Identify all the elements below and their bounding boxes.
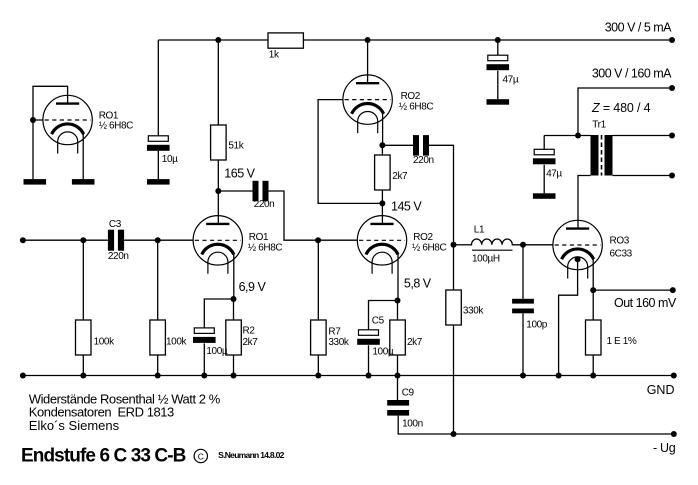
tube RO1 first stage half 6H8C [193, 216, 242, 274]
svg-text:½ 6H8C: ½ 6H8C [99, 121, 133, 132]
wire input row [23, 239, 193, 241]
svg-text:1 E 1%: 1 E 1% [607, 336, 637, 347]
svg-text:47µ: 47µ [546, 169, 562, 180]
copyright symbol [194, 449, 207, 462]
svg-text:Elko´s Siemens: Elko´s Siemens [29, 418, 120, 433]
wire 100k input leg [82, 240, 84, 375]
wire out [593, 289, 673, 291]
label RO1 spare [99, 111, 133, 132]
svg-text:C9: C9 [402, 388, 415, 399]
wire supply 300V/160mA [578, 88, 672, 136]
tube RO2 upper half 6H8C [343, 75, 392, 133]
terminal GND left [20, 373, 26, 379]
wire cathode node to 100u [204, 299, 233, 328]
terminal out [670, 287, 676, 293]
node gnd C5 [366, 373, 372, 379]
node L1 left / 330k [451, 242, 457, 248]
svg-text:GND: GND [647, 383, 675, 397]
transformer Tr1 [591, 120, 613, 176]
node C3 / 100k [155, 237, 161, 243]
wire RO2b anode lead [381, 203, 383, 224]
capacitor 100p [512, 299, 548, 331]
svg-text:Endstufe 6 C 33 C-B: Endstufe 6 C 33 C-B [21, 445, 186, 466]
node gnd 100k grid [155, 373, 161, 379]
svg-text:C5: C5 [372, 316, 385, 327]
node RO1 cathode 6.9V [231, 296, 237, 302]
node 145V [379, 200, 385, 206]
wire 100p upper lead [522, 245, 524, 299]
ground bar RO1 spare cathode [72, 179, 95, 185]
svg-text:- Ug: - Ug [653, 441, 676, 455]
node top rail / 47u [495, 37, 501, 43]
wire 1E leads [592, 290, 594, 375]
terminal secondary top [669, 133, 675, 139]
svg-text:145 V: 145 V [391, 200, 422, 214]
wire R2 leads [233, 299, 235, 376]
label RO3 [610, 235, 633, 259]
svg-text:100p: 100p [526, 319, 547, 330]
wire RO1 anode lead [217, 191, 219, 224]
wire 47u to ground [497, 71, 499, 100]
wire R7 leads [317, 240, 319, 375]
node gnd 100k input [80, 373, 86, 379]
wire RO2b cathode lead [397, 254, 399, 301]
node top rail right terminal [669, 37, 675, 43]
svg-text:220n: 220n [108, 251, 129, 262]
resistor R7 330k [311, 320, 350, 355]
node L1 right / 100p [520, 242, 526, 248]
svg-text:½ 6H8C: ½ 6H8C [412, 242, 446, 253]
tube RO1 spare half 6H8C [43, 95, 92, 153]
wire 100k grid leg [157, 240, 159, 375]
svg-text:100k: 100k [94, 336, 115, 347]
wire rail to 47u [497, 40, 499, 55]
node out [590, 287, 596, 293]
node top rail / 51k [215, 37, 221, 43]
ground bar under 47u lower [533, 193, 556, 199]
svg-text:6,9 V: 6,9 V [239, 280, 267, 294]
capacitor 220n coupling2 [413, 135, 434, 166]
wire rail to 51k to 165V node [217, 40, 219, 191]
svg-text:2k7: 2k7 [243, 337, 259, 348]
wire 100p to gnd [522, 313, 524, 375]
wire RO1 spare grid-anode tie [33, 86, 68, 120]
wire primary bottom to RO3 anode [578, 176, 591, 229]
svg-text:10µ: 10µ [162, 154, 178, 165]
svg-text:C3: C3 [109, 219, 122, 230]
wire 100u to gnd [203, 343, 205, 375]
svg-text:½ 6H8C: ½ 6H8C [399, 102, 433, 113]
wire RO2a anode to rail [367, 40, 369, 83]
wire RO1 spare grid to ground [32, 120, 34, 179]
svg-text:1k: 1k [269, 50, 280, 61]
svg-text:300 V / 160 mA: 300 V / 160 mA [592, 67, 672, 81]
wire L1 to RO3 grid [514, 244, 553, 246]
wire RO3 cathode right to out node [592, 258, 594, 290]
resistor 2k7 lower [390, 320, 423, 355]
wire GND rail [23, 375, 674, 377]
wire 220n down to RO2 grid row [269, 191, 358, 240]
svg-text:R7: R7 [328, 326, 341, 337]
terminal input [20, 237, 26, 243]
svg-text:RO2: RO2 [413, 232, 433, 243]
wire C9 to -Ug rail [398, 416, 674, 434]
svg-text:Out 160 mV: Out 160 mV [614, 296, 677, 310]
resistor 100k grid [150, 320, 188, 355]
wire RO2a cathode to 220n [382, 144, 413, 146]
wire top supply rail 300V/5mA [158, 39, 672, 41]
node RO2a cathode [379, 142, 385, 148]
node 165V [215, 188, 221, 194]
wire RO2a grid to 145V node [318, 100, 382, 204]
svg-text:6C33: 6C33 [610, 249, 633, 260]
resistor 1E 1% [586, 320, 637, 355]
node gnd R2 [231, 373, 237, 379]
svg-text:Tr1: Tr1 [592, 120, 606, 131]
node gnd RO3 cathode [556, 373, 562, 379]
wire 165V node to 220n [218, 190, 252, 192]
node primary top [575, 133, 581, 139]
svg-text:RO2: RO2 [401, 91, 421, 102]
label RO1 first stage [248, 232, 282, 254]
wire RO1 cathode lead [233, 254, 235, 299]
wire 220n to L1 node [429, 145, 454, 245]
node input / 100k [80, 237, 86, 243]
svg-text:100µ: 100µ [372, 347, 393, 358]
wire RO2a cathode lead [382, 113, 384, 145]
svg-text:51k: 51k [228, 141, 244, 152]
svg-text:2k7: 2k7 [392, 171, 408, 182]
wire 2k7 lower leads [397, 301, 399, 376]
wire 47u2 node to transformer primary top [544, 135, 590, 137]
node RO3 cathode center [575, 256, 581, 262]
svg-text:2k7: 2k7 [407, 337, 423, 348]
wire 47u lower to ground [543, 165, 545, 194]
capacitor 100u first stage [193, 328, 228, 357]
svg-text:100µH: 100µH [472, 254, 500, 265]
node -Ug 330k [451, 431, 457, 437]
ground bar RO1 spare grid [24, 179, 47, 185]
svg-text:330k: 330k [328, 337, 349, 348]
resistor 1k [268, 33, 303, 61]
wire gnd node to C9 [397, 376, 399, 401]
svg-text:S.Neumann 14.8.02: S.Neumann 14.8.02 [218, 450, 285, 460]
wire secondary bottom [613, 175, 673, 177]
svg-text:330k: 330k [463, 306, 484, 317]
wire RO2a cathode to 2k7 [381, 145, 383, 203]
wire RO1 spare cathode to ground [82, 134, 84, 179]
svg-text:5,8 V: 5,8 V [404, 277, 432, 291]
tube RO3 6C33 [553, 220, 602, 278]
capacitor 220n coupling1 [253, 181, 275, 210]
node RO1 spare grid [30, 117, 36, 123]
capacitor 47u lower electrolytic [533, 136, 563, 180]
resistor 2k7 upper [375, 155, 408, 190]
node gnd 1E [590, 373, 596, 379]
svg-text:L1: L1 [474, 225, 485, 236]
svg-text:Z = 480 / 4: Z = 480 / 4 [591, 101, 651, 115]
svg-text:½ 6H8C: ½ 6H8C [248, 242, 282, 253]
svg-text:RO3: RO3 [610, 235, 630, 246]
wire C5 to gnd [368, 345, 370, 375]
svg-text:RO1: RO1 [249, 232, 269, 243]
terminal 300V/160mA [669, 85, 675, 91]
svg-text:100n: 100n [402, 419, 423, 430]
node gnd R7 [315, 373, 321, 379]
capacitor 47u upper electrolytic [487, 55, 519, 85]
svg-text:100µ: 100µ [206, 346, 227, 357]
label RO2 second stage [412, 232, 446, 254]
label RO2a [399, 91, 433, 113]
wire 10u to ground [157, 151, 159, 179]
wire cathode node to C5 [369, 301, 398, 330]
capacitor C3 220n [108, 219, 129, 262]
svg-text:220n: 220n [413, 155, 434, 166]
node gnd 100p [520, 373, 526, 379]
node RO2 cathode 5.8V [395, 298, 401, 304]
svg-text:300 V / 5 mA: 300 V / 5 mA [605, 21, 672, 35]
svg-text:R2: R2 [243, 326, 256, 337]
capacitor 10u electrolytic [147, 136, 178, 165]
node RO2 grid / R7 [315, 237, 321, 243]
resistor 330k bias [446, 290, 485, 325]
wire secondary top [613, 135, 673, 137]
ground bar under 10u [147, 179, 170, 185]
node gnd 2k7/C9 [395, 373, 401, 379]
resistor R2 2k7 [226, 320, 258, 355]
capacitor C5 100u [357, 316, 394, 358]
tube RO2 second stage half 6H8C [357, 216, 406, 274]
capacitor C9 100n [387, 388, 423, 430]
terminal -Ug [671, 431, 677, 437]
terminal secondary bottom [669, 173, 675, 179]
node gnd 100u [201, 373, 207, 379]
svg-text:47µ: 47µ [503, 75, 519, 86]
wire node to L1 [454, 244, 470, 246]
node top rail / RO2 anode [365, 37, 371, 43]
ground bar under 47u [487, 99, 510, 105]
svg-text:100k: 100k [166, 336, 187, 347]
svg-text:220n: 220n [254, 199, 275, 210]
terminal GND right [671, 373, 677, 379]
wire rail corner down to 10u [157, 40, 159, 136]
svg-text:165 V: 165 V [224, 166, 255, 180]
wire 330k leads [453, 245, 455, 434]
resistor 100k input [76, 320, 116, 355]
wire RO3 cathode center to gnd [559, 259, 578, 375]
svg-text:C: C [198, 451, 204, 461]
inductor L1 100uH [470, 225, 515, 265]
resistor 51k [211, 125, 245, 160]
